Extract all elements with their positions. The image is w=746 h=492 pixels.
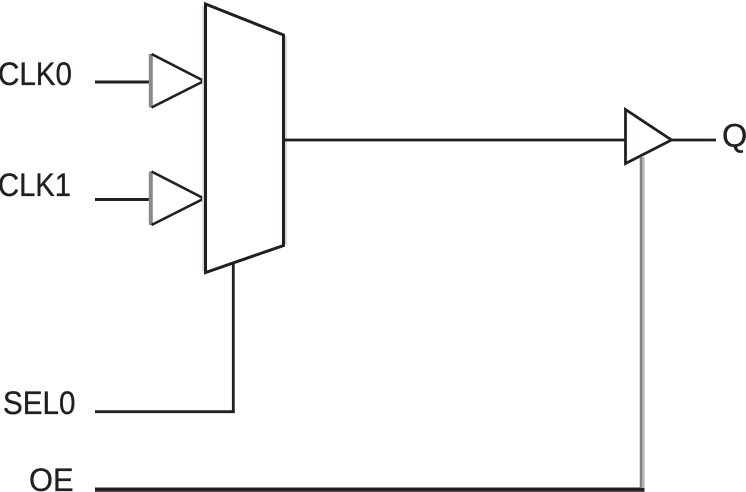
svg-text:CLK1: CLK1 bbox=[0, 167, 71, 203]
wire OE horizontal bbox=[95, 488, 645, 492]
wire CLK1 input bbox=[95, 198, 152, 201]
buffer U4 output buffer (tri-state) bbox=[626, 110, 672, 164]
wire SEL0 vertical to mux select pin bbox=[232, 263, 235, 414]
wire OE vertical enable to output buffer bbox=[641, 157, 643, 488]
buffer U1 CLK0 input buffer bbox=[151, 54, 204, 108]
svg-text:CLK0: CLK0 bbox=[0, 56, 72, 92]
wire SEL0 horizontal bbox=[95, 410, 235, 413]
mux U3 bbox=[203, 4, 286, 273]
svg-text:Q: Q bbox=[722, 118, 746, 154]
wire CLK0 input bbox=[95, 81, 152, 84]
wire mux output to output buffer bbox=[285, 139, 626, 142]
svg-text:OE: OE bbox=[29, 462, 74, 492]
wire Q output bbox=[672, 139, 717, 142]
buffer U2 CLK1 input buffer bbox=[151, 172, 204, 226]
svg-text:SEL0: SEL0 bbox=[3, 385, 76, 421]
